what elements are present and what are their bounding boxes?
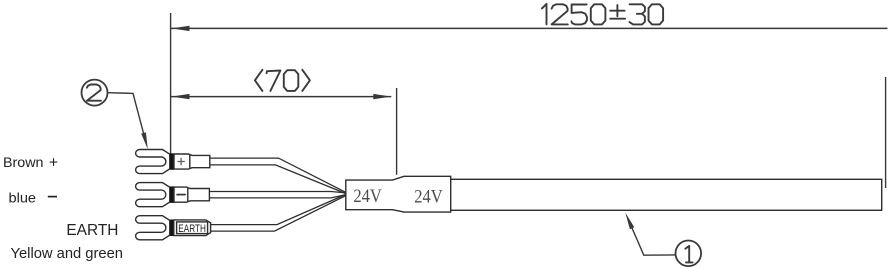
crimp band 2 (solid) — [170, 186, 174, 203]
arrowhead left of dimension 1250±30 — [172, 26, 190, 31]
arrowhead right of dimension (70) — [373, 94, 391, 99]
terminal 1: fork spade (+) — [136, 150, 210, 174]
glyph 2 inside balloon — [87, 85, 101, 101]
balloon 1 (circled item number) — [676, 241, 702, 267]
fork blade 3 — [136, 216, 170, 240]
arrowhead of leader 1 — [625, 213, 634, 230]
label frame EARTH — [177, 222, 208, 234]
dimension text (70) (CAD stroke font) — [255, 70, 310, 91]
leader from balloon 1 — [631, 226, 676, 256]
dimension line 1250±30 — [171, 27, 888, 29]
marker sleeve 24V (stepped outline) — [346, 176, 451, 212]
arrowhead left of dimension (70) — [172, 94, 190, 99]
balloon 2 (circled item number) — [82, 80, 108, 106]
glyph 1 inside balloon — [685, 246, 692, 263]
extension line right of dimension (70) — [396, 88, 398, 175]
svg-text:24V: 24V — [353, 186, 382, 207]
leader from balloon 2 — [108, 93, 145, 138]
extension line right of dimension 1250±30 — [885, 77, 887, 188]
plus mark on barrel 1 — [177, 158, 184, 165]
extension line left (shared by both dimensions) — [170, 13, 172, 157]
svg-text:Yellow and green: Yellow and green — [11, 245, 124, 262]
insulation barrel 3 — [174, 220, 211, 236]
cable jacket — [451, 179, 882, 210]
terminal 3: fork spade (EARTH) — [136, 216, 211, 240]
fork blade 1 — [136, 150, 170, 174]
wire brown (double line) — [210, 158, 346, 194]
svg-text:24V: 24V — [414, 187, 443, 208]
insulation barrel 1 — [174, 154, 210, 169]
insulation barrel 2 — [174, 187, 209, 202]
dimension line (70) — [171, 96, 391, 98]
dimension text 1250±30 (CAD stroke font) — [542, 4, 663, 25]
svg-text:EARTH: EARTH — [66, 222, 118, 239]
crimp band 3 (solid) — [170, 220, 174, 237]
arrowhead of leader 2 — [141, 132, 148, 149]
minus mark on barrel 2 — [176, 194, 185, 196]
svg-text:blue: blue — [9, 190, 37, 206]
svg-text:+: + — [49, 155, 58, 172]
fork blade 2 — [136, 183, 170, 207]
svg-text:Brown: Brown — [3, 154, 44, 170]
wire blue (double line) — [209, 192, 345, 198]
terminal 2: fork spade (-) — [136, 183, 210, 207]
svg-text:EARTH: EARTH — [178, 223, 206, 235]
wire yellow/green (double line) — [211, 194, 346, 231]
crimp band 1 (solid) — [170, 153, 174, 170]
